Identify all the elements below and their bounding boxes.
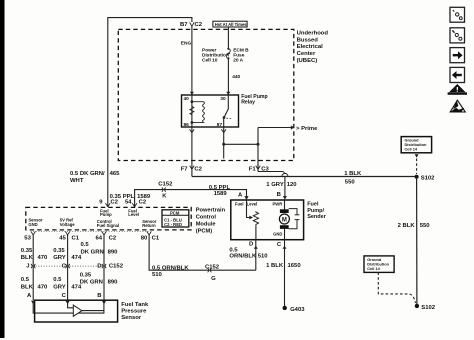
svg-text:Cell 10: Cell 10 (202, 57, 218, 63)
pin 40 (190, 92, 194, 95)
svg-text:Underhood: Underhood (297, 30, 329, 36)
relay coil branch wire (191, 95, 193, 127)
connector row C152 J/C/D (26, 263, 124, 269)
wire 0.5 DK GRN/WHT 465 labels (70, 171, 120, 184)
labels row2 col3: 0.35 DK GRN 890 (80, 272, 118, 285)
connector C152 K on PPL wire (158, 182, 173, 200)
wire 465 routing: top horizontal from PCM column to B7/C2 (108, 18, 192, 207)
svg-text:1 BLK: 1 BLK (344, 171, 362, 177)
svg-text:G: G (211, 276, 216, 282)
svg-text:C: C (277, 242, 282, 248)
svg-text:64: 64 (96, 235, 103, 241)
svg-text:Fuel: Fuel (235, 201, 244, 206)
svg-text:A: A (238, 192, 243, 198)
wire: prime branch vertical (257, 128, 259, 172)
svg-text:C1: C1 (152, 235, 160, 241)
svg-text:510: 510 (258, 254, 269, 260)
connector C152 G on ORN/BLK wire (205, 264, 220, 282)
svg-text:Module: Module (196, 221, 216, 227)
svg-text:0.5: 0.5 (21, 277, 30, 283)
wire 1 GRY 120: F1/C3 to pump B with hop over BLK (258, 172, 297, 200)
svg-text:465: 465 (110, 171, 121, 177)
svg-text:C: C (62, 293, 67, 299)
icon ESD triangle (450, 100, 466, 112)
motor wire to C (284, 229, 286, 240)
node 9/C2 PCM connector (99, 200, 118, 207)
relay socket fork 87 (221, 129, 226, 133)
node B7/C2 connector (180, 22, 203, 28)
svg-text:86: 86 (184, 122, 190, 128)
wire BLK 470 column (32, 235, 34, 300)
wire + arrow to Prime (258, 125, 318, 131)
wire 1 BLK 550 horizontal to S102 (192, 176, 417, 178)
svg-text:D: D (249, 241, 253, 247)
svg-text:Sender: Sender (307, 214, 327, 220)
svg-text:87: 87 (217, 122, 223, 128)
wire 2 BLK 550: S102 to S102 bottom (416, 177, 418, 305)
svg-text:0.5 DK GRN/: 0.5 DK GRN/ (70, 171, 105, 177)
svg-text:C2: C2 (194, 166, 202, 172)
svg-text:GRY: GRY (53, 255, 66, 261)
wire ENG: B7/C2 down to relay pin 40 (191, 26, 193, 95)
label UBEC (297, 30, 329, 64)
svg-text:Control: Control (196, 215, 217, 221)
svg-text:C2: C2 (139, 200, 147, 206)
svg-text:120: 120 (287, 182, 298, 188)
svg-text:B: B (97, 293, 101, 299)
svg-text:510: 510 (152, 272, 163, 278)
svg-text:C2: C2 (110, 200, 118, 206)
icon button arrow right (450, 48, 465, 63)
wire 0.5 ORN/BLK 510 from pin 80 (149, 235, 256, 270)
wire: 87 down, junction, to edge (223, 127, 225, 159)
labels row1 col3: 0.5 DK GRN 890 (81, 242, 119, 255)
labels row1 col2: 0.35 GRY 474 (53, 248, 82, 261)
svg-text:GND: GND (273, 232, 282, 237)
wire: 87 junction horizontal to F1/C3 column (224, 143, 258, 145)
wire from Hot At All Times to fuse (227, 27, 229, 49)
svg-text:53: 53 (24, 235, 31, 241)
svg-text:Hot At All Times: Hot At All Times (215, 22, 248, 27)
svg-text:890: 890 (108, 249, 119, 255)
motor M (279, 209, 289, 229)
svg-text:Relay: Relay (241, 99, 255, 105)
labels 0.5 ORN/BLK 510 (pin D wire) (229, 247, 268, 259)
fuel level sender: variable resistor (253, 211, 258, 226)
label Power Distribution Cell 10 (202, 48, 229, 64)
svg-text:Cell 14: Cell 14 (367, 266, 380, 271)
pin C (277, 240, 287, 307)
pin 64 C2 (96, 231, 117, 241)
op-amp triangle (73, 305, 82, 316)
node S102 bottom (415, 304, 419, 308)
fuel pump/sender box (231, 200, 304, 240)
svg-text:J: J (26, 263, 29, 269)
svg-text:0.5: 0.5 (53, 277, 62, 283)
svg-text:550: 550 (420, 223, 431, 229)
wire DK GRN 890 column (103, 235, 105, 300)
ground distribution cell 14 (bottom) (364, 256, 416, 303)
svg-text:F1: F1 (249, 166, 257, 172)
label Hot At All Times (213, 21, 247, 27)
svg-text:470: 470 (38, 255, 49, 261)
svg-text:PCM: PCM (170, 210, 180, 215)
icon button zoom 1 (450, 7, 465, 22)
svg-text:0.35: 0.35 (80, 272, 92, 278)
svg-text:Electrical: Electrical (297, 44, 324, 50)
ground distribution cell 14 (top) (401, 137, 431, 174)
svg-text:K: K (162, 193, 167, 199)
svg-text:20 A: 20 A (233, 57, 243, 63)
svg-text:S102: S102 (421, 305, 435, 311)
svg-text:C: C (62, 263, 67, 269)
UBEC dashed box (118, 29, 293, 160)
svg-text:G403: G403 (290, 307, 305, 313)
icon button arrow left (450, 67, 465, 82)
PCM connector legend box (162, 210, 189, 227)
svg-text:1589: 1589 (214, 191, 228, 197)
svg-text:C152: C152 (205, 264, 220, 270)
svg-text:Level: Level (247, 201, 258, 206)
svg-text:Return: Return (142, 223, 156, 228)
svg-text:C2 - RED: C2 - RED (164, 222, 182, 227)
svg-text:54: 54 (125, 200, 132, 206)
ground G403 (283, 306, 306, 314)
svg-text:Fuel: Fuel (307, 201, 319, 207)
svg-text:30: 30 (220, 96, 226, 102)
PCM dashed box (26, 207, 191, 230)
FTP entry arrows (31, 301, 35, 305)
wire 0.35 PPL 1589: horizontal from pump A to PCM 54/C2 (135, 190, 247, 207)
svg-text:(UBEC): (UBEC) (297, 58, 318, 64)
pin letters A C B (27, 293, 101, 299)
svg-text:GND: GND (28, 222, 37, 227)
wire: 86 down to F7/C2 and corner to BLK550 (191, 127, 193, 177)
wire 440: fuse to relay pin 30 (227, 58, 229, 95)
svg-text:BLK: BLK (21, 255, 34, 261)
labels 1 BLK 1650 (266, 263, 301, 269)
pin 80 C1 (141, 231, 160, 241)
svg-text:0.5: 0.5 (229, 247, 238, 253)
svg-text:Center: Center (297, 51, 316, 57)
svg-text:Cell 14: Cell 14 (405, 147, 418, 152)
labels row1 col1: 0.35 BLK 470 (21, 248, 48, 261)
svg-text:PWR: PWR (273, 201, 283, 206)
capacitor across motor (289, 209, 300, 229)
fuel tank pressure sensor box (35, 300, 118, 322)
svg-text:GRY: GRY (53, 284, 66, 290)
svg-text:Voltage: Voltage (60, 222, 75, 227)
labels 0.5 ORN/BLK 510 (horizontal) (152, 265, 189, 278)
svg-text:0.5 ORN/BLK: 0.5 ORN/BLK (152, 265, 189, 271)
svg-text:C1: C1 (72, 235, 80, 241)
node 54/C2 PCM connector (125, 200, 147, 207)
svg-text:Pump: Pump (100, 212, 112, 217)
svg-text:M: M (282, 217, 287, 223)
wire GRY 474 column (67, 235, 69, 300)
svg-text:BLK: BLK (21, 284, 34, 290)
relay U: fuel pump relay box (182, 95, 239, 127)
relay switch 30-87 (223, 95, 232, 127)
node F1/C3 connector (249, 166, 270, 173)
svg-text:1 GRY: 1 GRY (266, 182, 284, 188)
svg-text:0.5: 0.5 (81, 242, 90, 248)
svg-text:2 BLK: 2 BLK (398, 223, 416, 229)
svg-text:ORN/BLK: ORN/BLK (229, 254, 257, 260)
svg-text:Pump/: Pump/ (307, 208, 324, 214)
svg-text:C2: C2 (109, 235, 117, 241)
fuel level sender: wiper arm (247, 200, 250, 218)
PCM bottom pin dotted joint line (33, 231, 149, 233)
motor wire from B (284, 200, 286, 210)
node F7/C2 connector (181, 166, 203, 173)
pin D (249, 240, 258, 271)
svg-text:F7: F7 (181, 166, 189, 172)
node S102 top (415, 175, 419, 179)
labels row2 col2: 0.5 GRY 474 (53, 277, 82, 290)
relay socket fork 86 (190, 129, 195, 133)
labels row2 col1: 0.5 BLK 470 (21, 277, 48, 290)
svg-text:40: 40 (184, 96, 190, 102)
icon button zoom 2 (450, 28, 465, 43)
svg-text:(PCM): (PCM) (196, 228, 213, 234)
pin 53 (24, 231, 35, 241)
svg-text:45: 45 (59, 235, 66, 241)
svg-text:1 BLK: 1 BLK (266, 263, 284, 269)
icon warning triangle (448, 84, 467, 95)
svg-text:C152: C152 (109, 263, 124, 269)
svg-text:440: 440 (232, 74, 240, 80)
svg-text:Sensor: Sensor (121, 315, 142, 321)
svg-text:A: A (27, 293, 32, 299)
pin 45 C1 (59, 231, 80, 241)
FTP internal wiring (33, 303, 104, 316)
svg-text:890: 890 (108, 280, 119, 286)
svg-text:DK GRN: DK GRN (80, 280, 103, 286)
left black border strip (0, 0, 5, 338)
svg-text:470: 470 (38, 284, 49, 290)
svg-text:80: 80 (141, 235, 148, 241)
svg-text:474: 474 (71, 255, 82, 261)
svg-text:D: D (97, 263, 101, 269)
svg-text:Pressure: Pressure (121, 309, 147, 315)
svg-text:B7: B7 (180, 22, 188, 28)
svg-text:C2: C2 (195, 22, 203, 28)
svg-text:> Prime: > Prime (296, 126, 318, 132)
svg-text:Fuel Tank: Fuel Tank (121, 302, 149, 308)
svg-text:S102: S102 (421, 175, 435, 181)
svg-text:C152: C152 (158, 182, 173, 188)
svg-text:1650: 1650 (288, 263, 302, 269)
svg-text:B: B (277, 192, 281, 198)
svg-text:Level: Level (128, 212, 139, 217)
svg-text:0.35: 0.35 (53, 248, 65, 254)
relay coil (with parallel resistor) (190, 100, 205, 124)
svg-text:Fuel Signal: Fuel Signal (97, 223, 119, 228)
svg-text:DK GRN: DK GRN (81, 249, 104, 255)
svg-text:550: 550 (345, 180, 356, 186)
svg-text:ENG: ENG (181, 41, 192, 47)
svg-text:0.35: 0.35 (21, 248, 33, 254)
pin 30 (226, 92, 230, 95)
svg-text:WHT: WHT (70, 178, 84, 184)
svg-text:Bussed: Bussed (297, 37, 319, 43)
fuse ECM B 20A (226, 48, 249, 64)
PCM internal labels (28, 208, 156, 228)
label Powertrain Control Module (196, 208, 226, 235)
svg-text:Powertrain: Powertrain (196, 208, 226, 214)
